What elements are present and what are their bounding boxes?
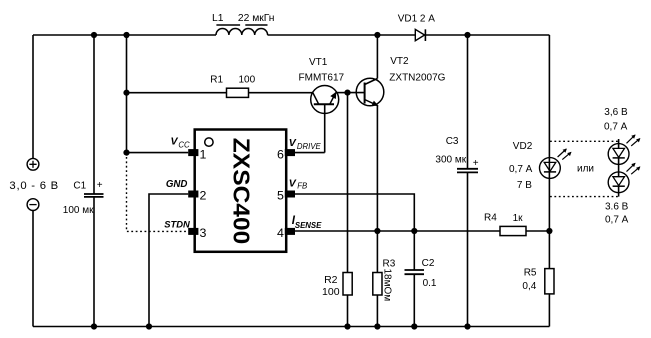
resistor R4 — [484, 212, 549, 235]
node battery/C1 junction — [91, 32, 97, 38]
node VT2 collector junction — [374, 32, 380, 38]
pin 4 ISENSE — [285, 215, 322, 235]
capacitor C3 — [435, 35, 478, 327]
IC U1 ZXSC400 — [195, 130, 287, 252]
pin 1 VCC — [171, 135, 199, 156]
svg-text:C2: C2 — [422, 258, 435, 269]
wire VDRIVE to VT1 base — [295, 152, 325, 154]
svg-text:3.6 В: 3.6 В — [605, 201, 629, 212]
svg-text:VD2: VD2 — [513, 141, 533, 152]
svg-text:0.1: 0.1 — [423, 278, 437, 289]
wire VCC branch vertical — [126, 35, 128, 153]
svg-text:2: 2 — [200, 189, 207, 203]
svg-text:+: + — [473, 158, 479, 169]
wire battery positive lead — [32, 35, 34, 158]
svg-text:5: 5 — [277, 189, 284, 203]
svg-text:7 В: 7 В — [517, 180, 532, 191]
resistor R5 — [522, 231, 554, 327]
transistor VT2 ZXTN2007G — [348, 56, 446, 106]
svg-text:100 мк: 100 мк — [63, 205, 94, 216]
wire LED branch vertical — [548, 35, 550, 231]
svg-text:GND: GND — [166, 179, 188, 190]
node C2 top junction — [411, 228, 417, 234]
wire VT1 emitter to node — [336, 92, 348, 94]
node VCC junction — [123, 150, 129, 156]
svg-text:0,7 А: 0,7 А — [509, 164, 533, 175]
svg-text:3: 3 — [200, 226, 207, 240]
node R3 bottom junction — [374, 323, 380, 329]
svg-text:4: 4 — [277, 226, 284, 240]
svg-text:CC: CC — [178, 141, 190, 150]
svg-text:FMMT617: FMMT617 — [299, 72, 345, 83]
node VCC branch junction — [123, 32, 129, 38]
svg-text:18мОм: 18мОм — [382, 269, 393, 302]
resistor R2 — [322, 93, 352, 327]
pin 3 STDN — [164, 218, 198, 235]
wire GND pin to ground — [149, 194, 188, 327]
node R1 junction — [123, 90, 129, 96]
svg-text:C3: C3 — [446, 136, 459, 147]
svg-text:STDN: STDN — [164, 218, 190, 229]
wire VT2 emitter down — [376, 105, 378, 231]
wire VCC to pin 1 — [127, 152, 189, 154]
capacitor C2 — [405, 231, 437, 327]
svg-text:0,4: 0,4 — [522, 281, 536, 292]
svg-text:C1: C1 — [73, 181, 86, 192]
wire battery negative lead — [32, 211, 34, 327]
svg-text:V: V — [289, 137, 297, 149]
svg-text:0,7 А: 0,7 А — [605, 215, 629, 226]
node R2 bottom junction — [344, 323, 350, 329]
svg-text:VD1 2 А: VD1 2 А — [398, 13, 436, 24]
svg-text:DRIVE: DRIVE — [297, 142, 322, 151]
svg-text:+: + — [97, 180, 103, 191]
battery G1 — [9, 158, 58, 210]
svg-text:100: 100 — [322, 286, 340, 298]
LED alternative HL1 — [604, 107, 640, 165]
svg-text:или: или — [577, 164, 594, 175]
svg-text:ZXTN2007G: ZXTN2007G — [389, 72, 445, 83]
svg-text:SENSE: SENSE — [295, 221, 322, 230]
svg-text:6: 6 — [277, 147, 284, 161]
node R3 top junction — [374, 228, 380, 234]
svg-text:1: 1 — [200, 147, 207, 161]
svg-text:L1: L1 — [212, 13, 224, 24]
wire VT2 collector to rail — [376, 35, 378, 79]
wire dotted alternative bottom — [550, 196, 619, 198]
svg-text:1к: 1к — [513, 213, 524, 224]
node R4/R5/LED junction — [546, 228, 552, 234]
inductor L1 — [212, 13, 274, 35]
svg-text:3,0 - 6 В: 3,0 - 6 В — [9, 180, 58, 192]
svg-text:R1: R1 — [210, 74, 223, 85]
node C3 junction — [464, 32, 470, 38]
svg-text:R2: R2 — [324, 274, 338, 286]
LED alternative HL2 — [605, 163, 640, 226]
LED VD2 — [509, 141, 572, 191]
diode VD1 — [398, 13, 436, 41]
svg-text:22 мкГн: 22 мкГн — [238, 13, 275, 24]
svg-text:0,7 А: 0,7 А — [604, 122, 628, 133]
text label or — [577, 164, 594, 175]
node GND bottom junction — [146, 323, 152, 329]
pin 5 VFB — [285, 177, 307, 197]
wire STDN dotted link — [127, 153, 189, 232]
wire bottom rail — [33, 326, 549, 328]
wire dotted alternative top — [550, 140, 619, 142]
svg-text:V: V — [289, 177, 297, 189]
resistor R1 — [127, 74, 314, 97]
svg-text:300 мк: 300 мк — [435, 154, 466, 165]
wire VFB pin 5 to C2 — [295, 194, 414, 231]
svg-text:R5: R5 — [524, 268, 537, 279]
wire ISENSE pin 4 line — [295, 230, 500, 232]
capacitor C1 — [63, 35, 104, 327]
wire top rail right segment — [425, 34, 549, 36]
svg-text:VT2: VT2 — [390, 56, 409, 67]
pin 2 GND — [166, 179, 199, 197]
transistor VT1 FMMT617 — [299, 57, 345, 153]
node VT1/VT2 junction — [344, 90, 350, 96]
svg-text:V: V — [171, 135, 179, 147]
resistor R3 — [373, 231, 396, 327]
svg-text:FB: FB — [297, 182, 307, 191]
svg-text:VT1: VT1 — [309, 57, 328, 68]
pin 6 VDRIVE — [285, 137, 322, 156]
svg-text:100: 100 — [239, 74, 256, 85]
wire top rail middle segment — [268, 34, 416, 36]
node C2 bottom junction — [411, 323, 417, 329]
node C1 bottom junction — [91, 323, 97, 329]
svg-text:3,6 В: 3,6 В — [604, 107, 628, 118]
svg-text:R4: R4 — [484, 212, 497, 223]
svg-text:ZXSC400: ZXSC400 — [228, 138, 254, 245]
node C3 bottom junction — [464, 323, 470, 329]
wire top rail left segment — [33, 34, 216, 36]
